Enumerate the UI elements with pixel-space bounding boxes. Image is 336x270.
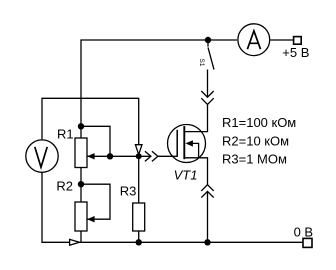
wire R2 bottom to ground rail (80, 231, 82, 242)
wire +5V rail from top-left corner to ammeter (81, 40, 237, 138)
transistor VT1 gate bar (176, 130, 178, 157)
resistor R2 (potentiometer body) (75, 202, 87, 231)
svg-text:S1: S1 (198, 59, 205, 67)
wire R2 rheostat link (81, 184, 110, 219)
label R3 value (222, 152, 287, 167)
wire R1 bottom to R2 top (80, 168, 82, 203)
label VT1 (174, 167, 198, 182)
wire R1 wiper (88, 155, 111, 157)
wire gate net (110, 155, 151, 157)
probe arrowhead (voltmeter plus, open) (135, 145, 142, 155)
label R1 (57, 126, 74, 141)
transistor VT1 body wire (192, 143, 199, 157)
wire R1 rheostat link (81, 126, 110, 156)
wire drain lead (184, 104, 207, 131)
svg-text:R1=100 кОм: R1=100 кОм (222, 115, 296, 130)
node junction dot source / ground rail (204, 239, 210, 245)
terminal +5V square (294, 37, 302, 45)
node junction dot R1 top (78, 123, 84, 129)
voltmeter V (26, 140, 58, 172)
probe arrowhead (voltmeter minus, open) (70, 239, 80, 245)
svg-text:0 В: 0 В (294, 224, 314, 239)
switch S1 label (198, 59, 205, 67)
chevron marks down (drain lead break) (201, 91, 213, 104)
label +5 В (282, 45, 309, 60)
svg-text:R2=10 кОм: R2=10 кОм (222, 133, 289, 148)
resistor R1 (potentiometer body) (75, 138, 87, 168)
svg-text:R1: R1 (57, 126, 74, 141)
wire gate node to R3 (138, 156, 140, 203)
resistor R3 (133, 203, 145, 231)
terminal 0V square (303, 238, 312, 247)
label 0 В (294, 224, 314, 239)
wire source to ground rail (207, 191, 209, 242)
label R2 (56, 178, 73, 193)
chevron marks up (source lead break) (201, 185, 213, 198)
R1 wiper arrowhead (87, 153, 95, 159)
switch S1 blade (208, 47, 214, 69)
node junction dot R1 wiper / gate (107, 153, 113, 159)
wire switch to chevron (207, 70, 209, 98)
transistor VT1 body arrowhead (185, 140, 193, 146)
svg-text:VT1: VT1 (174, 167, 198, 182)
R2 wiper arrowhead (87, 216, 95, 222)
ammeter A (238, 24, 270, 56)
wire gate to transistor (158, 155, 178, 157)
wire ground rail (79, 241, 303, 243)
label R1 value (222, 115, 296, 130)
wire voltmeter plus probe (42, 98, 139, 145)
svg-text:+5 В: +5 В (282, 45, 309, 60)
transistor VT1 source path (184, 158, 207, 185)
wire ammeter to +5V terminal (270, 39, 293, 41)
label R3 (120, 184, 137, 199)
svg-text:R3: R3 (120, 184, 137, 199)
svg-text:R3=1 МОм: R3=1 МОм (222, 152, 287, 167)
wire voltmeter minus probe (42, 173, 70, 242)
transistor VT1 channel bar (183, 126, 185, 159)
node junction dot +5V rail / switch S1 (205, 37, 211, 43)
node junction dot R3 / ground rail (136, 239, 142, 245)
transistor VT1 circle (168, 125, 206, 163)
svg-text:R2: R2 (56, 178, 73, 193)
node junction dot R2 top (78, 181, 84, 187)
node junction dot gate / R3 / probe (136, 153, 142, 159)
switch S1 stub wire (207, 40, 209, 47)
chevron marks right (gate lead break) (145, 151, 158, 161)
wire R3 bottom (138, 231, 140, 242)
label R2 value (222, 133, 289, 148)
